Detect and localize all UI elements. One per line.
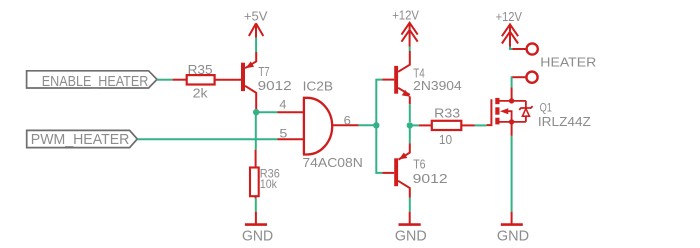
ground GND1 <box>242 212 273 245</box>
power +12V right <box>496 9 523 47</box>
transistor T4 2N3904 NPN <box>383 51 462 104</box>
svg-text:+5V: +5V <box>244 8 268 23</box>
svg-text:T7: T7 <box>258 64 269 79</box>
wire +12V right to HEATER pin 1 <box>510 47 512 50</box>
wire node C to T6 emitter <box>409 125 411 143</box>
wire node A to IC2B pin 4 <box>256 111 277 113</box>
resistor R35 value 2k <box>173 62 241 101</box>
wire HEATER pin 2 to Q1 drain <box>511 77 513 87</box>
svg-text:ENABLE_HEATER: ENABLE_HEATER <box>42 74 149 90</box>
power +5V <box>244 8 268 37</box>
svg-text:74AC08N: 74AC08N <box>302 155 363 170</box>
transistor T7 9012 PNP <box>241 52 292 112</box>
wire ENABLE_HEATER to R35 <box>157 79 173 81</box>
resistor R33 value 10 <box>419 106 475 148</box>
svg-text:R35: R35 <box>188 62 213 77</box>
power +12V left <box>392 8 419 47</box>
connector HEATER pin 2 <box>512 72 538 83</box>
pin 4 stub IC2B <box>278 98 304 112</box>
svg-text:Q1: Q1 <box>540 100 552 114</box>
svg-text:10k: 10k <box>260 178 277 191</box>
pin 5 stub IC2B <box>278 128 304 141</box>
wire Q1 source red lead <box>511 122 513 136</box>
node C junction (emitters) <box>407 122 413 128</box>
node B junction (bases) <box>373 122 379 128</box>
wire R33 to Q1 gate <box>475 124 487 126</box>
svg-text:9012: 9012 <box>413 171 448 186</box>
diode body diode of Q1 <box>519 101 532 122</box>
net flag ENABLE_HEATER <box>27 71 157 90</box>
wire pin 6 to node B <box>359 124 377 126</box>
svg-text:GND: GND <box>395 228 427 244</box>
transistor T6 9012 PNP <box>383 143 448 197</box>
wire drain lead red <box>511 88 513 101</box>
wire +5V to T7 emitter <box>255 38 257 52</box>
transistor Q1 IRLZ44Z N-MOSFET <box>487 98 591 129</box>
wire T6 collector to GND <box>409 198 411 212</box>
ground GND3 <box>497 212 529 245</box>
wire R36 to GND <box>255 198 257 211</box>
svg-text:R33: R33 <box>434 106 460 121</box>
svg-text:4: 4 <box>279 98 287 111</box>
svg-text:IRLZ44Z: IRLZ44Z <box>538 114 591 129</box>
svg-text:9012: 9012 <box>258 78 292 93</box>
connector HEATER pin 1 <box>512 43 538 54</box>
net flag PWM_HEATER <box>27 130 138 147</box>
svg-text:2k: 2k <box>193 86 209 101</box>
node A junction (T7 collector) <box>253 109 259 115</box>
ground GND2 <box>395 212 427 245</box>
wire PWM_HEATER to IC2B pin 5 <box>137 138 277 140</box>
svg-text:GND: GND <box>242 228 273 244</box>
wire base bus vertical <box>376 80 382 173</box>
svg-text:PWM_HEATER: PWM_HEATER <box>31 132 130 148</box>
wire node A down to R36 <box>255 112 257 150</box>
svg-text:HEATER: HEATER <box>540 55 596 69</box>
svg-text:T6: T6 <box>413 156 425 171</box>
resistor R36 value 10k <box>250 150 280 199</box>
pin 6 output stub IC2B <box>332 113 358 127</box>
IC U-gate IC2B 74AC08N AND gate <box>302 79 363 170</box>
svg-text:+12V: +12V <box>496 9 523 24</box>
wire +12V to T4 collector <box>409 47 411 52</box>
wire Q1 source to GND <box>511 136 513 212</box>
svg-text:5: 5 <box>279 128 287 141</box>
wire node C to R33 <box>410 124 419 126</box>
svg-text:10: 10 <box>439 132 452 147</box>
svg-text:6: 6 <box>344 113 351 127</box>
wire T4 emitter to node C <box>409 104 411 122</box>
svg-text:GND: GND <box>497 228 529 244</box>
svg-text:+12V: +12V <box>392 8 419 23</box>
svg-text:2N3904: 2N3904 <box>413 78 462 93</box>
svg-text:IC2B: IC2B <box>303 79 334 93</box>
